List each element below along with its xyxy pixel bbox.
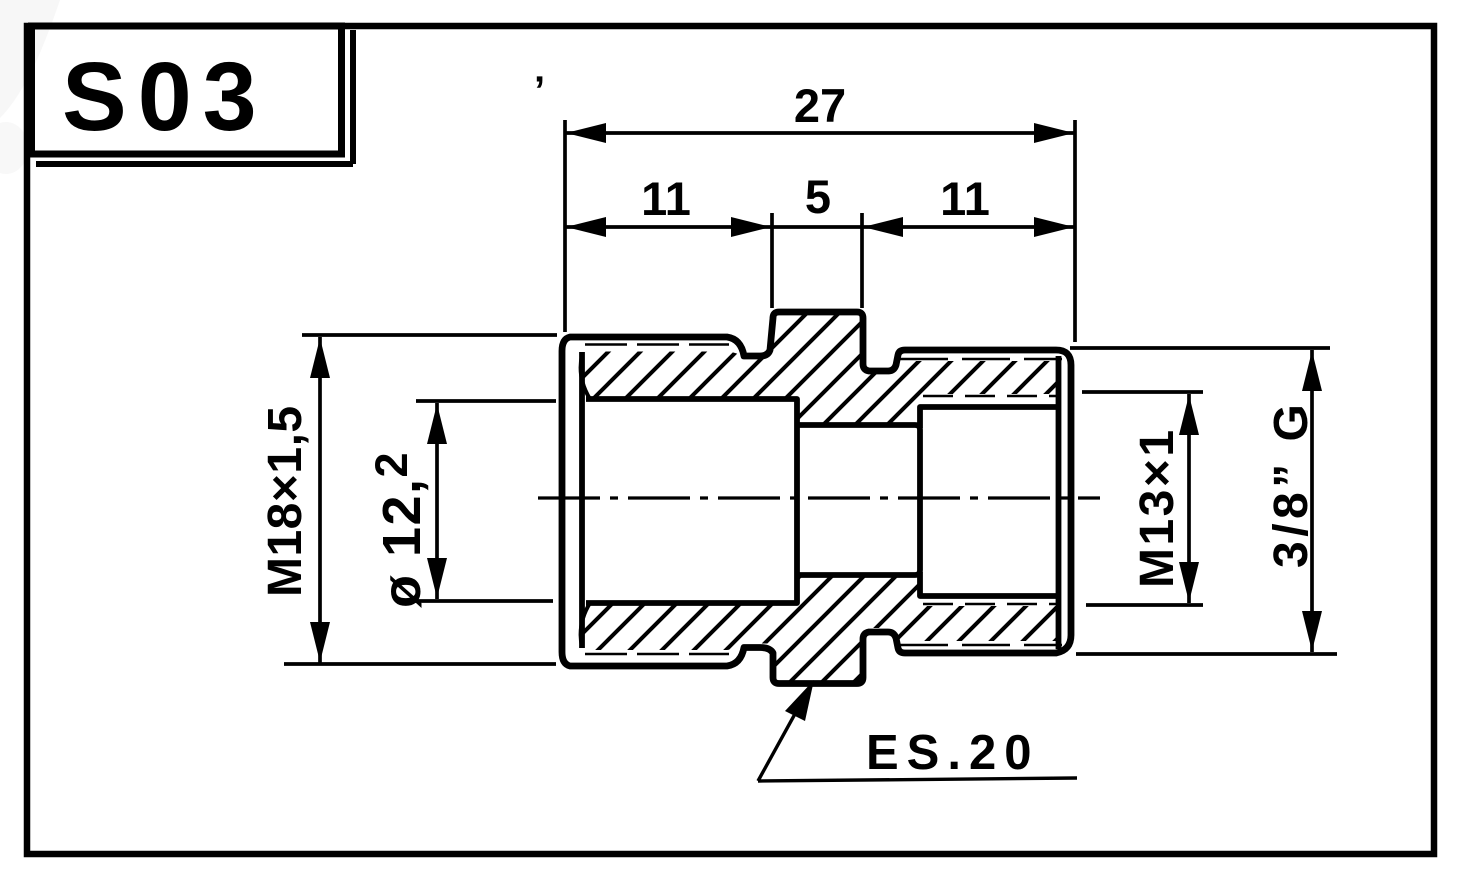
bore chamfer top xyxy=(581,355,590,399)
right cavity outline xyxy=(920,407,1057,596)
dashed crest line cavity top xyxy=(923,395,1057,398)
arrow 5 left xyxy=(731,217,771,237)
middle bore outline xyxy=(797,425,920,575)
scan smudge left edge xyxy=(0,122,28,174)
dim line 3/8G xyxy=(1310,350,1314,652)
dashed crest line cavity bottom xyxy=(923,603,1057,606)
leader line ES.20 xyxy=(758,683,1077,781)
svg-text:ES.20: ES.20 xyxy=(866,726,1039,780)
ext line 3/8G bottom xyxy=(1076,652,1337,656)
arrow d12.2 top xyxy=(427,404,447,444)
arrow M18 top xyxy=(310,338,330,378)
ext line M13 top xyxy=(1082,390,1203,394)
extension line hex right xyxy=(860,213,864,308)
arrow 27 left xyxy=(566,123,606,143)
ext line M18 top xyxy=(302,333,557,337)
extension line right 27 xyxy=(1073,120,1077,342)
arrow 11 right xyxy=(1034,217,1074,237)
arrow 3/8G bottom xyxy=(1302,611,1322,651)
ext line d12.2 top xyxy=(416,399,556,403)
ext line d12.2 bottom xyxy=(405,599,553,603)
thin crest line right top xyxy=(900,358,1062,361)
extension line hex left xyxy=(770,213,774,308)
title box shadow line right xyxy=(36,30,353,164)
centerline xyxy=(538,496,1100,499)
svg-text:M18×1,5: M18×1,5 xyxy=(259,405,312,597)
dim line M13 xyxy=(1187,394,1191,603)
dim line d12.2 xyxy=(435,403,439,599)
arrow M13 bottom xyxy=(1179,562,1199,602)
svg-text:M13×1: M13×1 xyxy=(1131,427,1184,588)
arrow 5 right xyxy=(863,217,903,237)
arrow M18 bottom xyxy=(310,622,330,662)
part outer profile xyxy=(562,312,1071,684)
svg-text:11: 11 xyxy=(940,172,990,225)
arrow M13 top xyxy=(1179,395,1199,435)
right inner face line xyxy=(1056,356,1062,649)
svg-text:’: ’ xyxy=(534,69,545,113)
bore 12.2 outline xyxy=(586,399,797,603)
ext line M18 bottom xyxy=(284,662,556,666)
thin thread crest line top left xyxy=(585,343,729,346)
scan smudge top-left xyxy=(0,0,60,118)
arrow 27 right xyxy=(1034,123,1074,143)
svg-text:11: 11 xyxy=(641,172,691,225)
svg-text:5: 5 xyxy=(805,170,831,223)
hatch top band xyxy=(581,315,1058,425)
bore chamfer bottom xyxy=(581,603,590,647)
ext line M13 bottom xyxy=(1086,603,1203,607)
left inner face line xyxy=(579,352,585,648)
hatch bottom band xyxy=(581,575,1059,682)
arrow 11 left xyxy=(566,217,606,237)
thin crest line right bottom xyxy=(900,644,1062,647)
dim line M18 xyxy=(318,337,322,663)
title box S03 xyxy=(32,26,342,154)
svg-text:3/8” G: 3/8” G xyxy=(1265,400,1318,568)
dimension line 11 5 11 xyxy=(565,225,1075,229)
arrow 3/8G top xyxy=(1302,351,1322,391)
arrow d12.2 bottom xyxy=(427,558,447,598)
thin thread crest line bottom left xyxy=(585,653,729,656)
extension line left 27 xyxy=(563,120,567,332)
leader arrow ES.20 xyxy=(785,680,814,721)
svg-text:S03: S03 xyxy=(62,42,268,151)
dimension line 27 xyxy=(565,131,1075,135)
svg-text:27: 27 xyxy=(794,79,846,132)
ext line 3/8G top xyxy=(1070,346,1330,350)
